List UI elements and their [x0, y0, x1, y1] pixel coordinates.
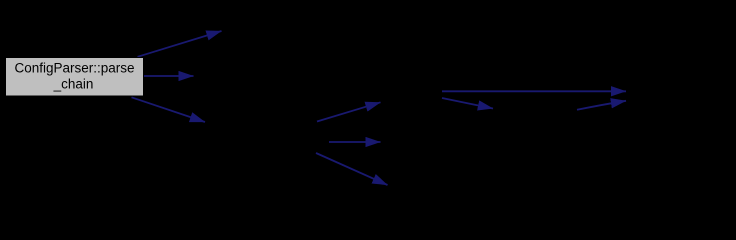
svg-text:ConfigParser::parse: ConfigParser::parse [14, 60, 134, 75]
svg-text:_chain: _chain [53, 76, 94, 91]
